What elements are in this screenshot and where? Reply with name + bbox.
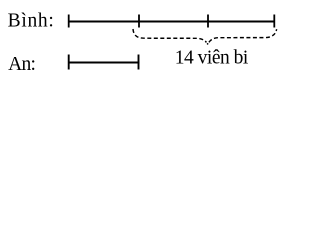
node tick 1 (Bình bar left end) — [68, 15, 70, 28]
dashed brace under right 2/3 of Bình bar — [133, 29, 277, 45]
node tick (An bar right end) — [138, 55, 140, 70]
wire: Bình bar line — [68, 21, 275, 23]
svg-text:Bình:: Bình: — [8, 11, 54, 32]
wire: An bar line — [68, 62, 140, 64]
svg-text:14 viên bi: 14 viên bi — [175, 48, 249, 69]
node tick 2 (Bình bar 1/3) — [138, 15, 140, 28]
svg-text:An:: An: — [8, 54, 36, 75]
node tick 4 (Bình bar right end) — [273, 15, 275, 28]
node tick (An bar left end) — [68, 55, 70, 70]
node tick 3 (Bình bar 2/3) — [207, 15, 209, 28]
